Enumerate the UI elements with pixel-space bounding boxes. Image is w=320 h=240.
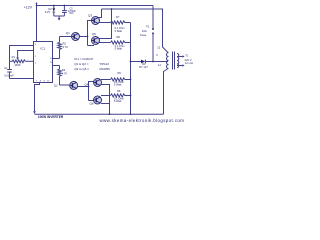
resistor R8 0.1 Ohm 5 Watt bbox=[111, 41, 131, 44]
wire Q5 emitter bbox=[98, 42, 111, 44]
svg-text:R6: R6 bbox=[117, 89, 121, 93]
svg-text:R8: R8 bbox=[117, 35, 121, 39]
svg-text:C1: C1 bbox=[4, 66, 8, 70]
wire Q4/Q6 collectors to bottom rail bbox=[101, 85, 110, 115]
wire +12V rail corner to fuse bbox=[152, 6, 154, 29]
transistor Q4 2N3055 bbox=[94, 79, 102, 87]
svg-text:2N3055: 2N3055 bbox=[99, 67, 110, 71]
wire Q5 collector riser bbox=[98, 9, 112, 39]
svg-text:12: 12 bbox=[157, 46, 160, 50]
svg-text:BY 127: BY 127 bbox=[139, 65, 148, 69]
svg-text:Q1 & Q2 =: Q1 & Q2 = bbox=[74, 62, 89, 66]
label R1 value bbox=[12, 55, 21, 67]
wire D1 cathode to transformer center tap bbox=[145, 61, 168, 63]
IC pin numbers bbox=[35, 44, 53, 82]
transistor Q2 TIP122 bbox=[70, 81, 78, 89]
label R2 value bbox=[63, 42, 69, 49]
svg-text:0,01 mF: 0,01 mF bbox=[4, 73, 14, 77]
wire IC ground drop with arrow bbox=[33, 83, 39, 115]
transformer T1 core bbox=[173, 52, 175, 70]
transistor Q3 2N3055 bbox=[92, 17, 100, 25]
svg-text:T1: T1 bbox=[185, 53, 189, 57]
wire secondary output top with arrow bbox=[177, 55, 185, 57]
resistor R2 4.7K bbox=[53, 37, 62, 59]
resistor R7 0.1 Ohm 5 Watt bbox=[111, 21, 131, 24]
wire pot loop top (pin stub) bbox=[10, 46, 34, 70]
svg-text:TIP122: TIP122 bbox=[99, 62, 109, 66]
wire pin 11 stub bbox=[53, 65, 60, 67]
wire Q1 output to Q3/Q5 bases bbox=[80, 21, 95, 46]
wire Q3 emitter bbox=[98, 22, 111, 24]
diode D1 BY127 bbox=[141, 60, 145, 64]
transformer T1 primary coil bbox=[167, 53, 169, 69]
capacitor C2 bbox=[62, 6, 67, 17]
resistor R5 0.1 Ohm 5 Watt bbox=[111, 78, 131, 81]
svg-text:F1: F1 bbox=[146, 24, 150, 28]
resistor R6 0.1 Ohm 5 Watt bbox=[111, 94, 131, 97]
svg-text:Q3 to Q6 =: Q3 to Q6 = bbox=[74, 67, 89, 71]
label C1 value bbox=[4, 66, 14, 78]
wire Q4 emitter bbox=[101, 79, 111, 81]
svg-text:4.7K: 4.7K bbox=[63, 45, 69, 49]
svg-text:5 Watt: 5 Watt bbox=[114, 99, 122, 103]
wire C1 bottom to IC bbox=[10, 78, 34, 80]
svg-text:Q2: Q2 bbox=[54, 84, 58, 88]
wire fuse to D1 line bbox=[152, 34, 154, 62]
wire IC supply drop bbox=[36, 6, 38, 42]
wire pot wiper bbox=[16, 51, 33, 61]
transistor Q5 2N3055 bbox=[92, 37, 100, 45]
wire D1 anode side bbox=[131, 61, 142, 63]
label F1 fuse bbox=[140, 24, 150, 37]
wire right emitter bus vertical bbox=[130, 23, 132, 115]
svg-text:R5: R5 bbox=[118, 71, 122, 75]
svg-text:5 Watt: 5 Watt bbox=[115, 29, 123, 33]
svg-text:100W INVERTER: 100W INVERTER bbox=[38, 115, 64, 119]
svg-text:Q4: Q4 bbox=[84, 82, 88, 86]
fuse F1 10A bbox=[152, 28, 154, 34]
svg-text:IC1 = CD4047: IC1 = CD4047 bbox=[74, 57, 93, 61]
label R7 value bbox=[115, 15, 125, 33]
transistor Q6 2N3055 bbox=[94, 96, 102, 104]
potentiometer R1 250K bbox=[10, 60, 34, 63]
label R8 value bbox=[115, 35, 125, 50]
label R5 value bbox=[114, 71, 124, 87]
capacitor C1 bbox=[7, 70, 12, 79]
zener diode D2 bbox=[52, 6, 64, 21]
wire bottom ground rail bbox=[35, 113, 164, 115]
svg-text:www.skema-elektronik.blogspot.: www.skema-elektronik.blogspot.com bbox=[100, 118, 185, 123]
wire Q3 collector riser bbox=[98, 9, 102, 18]
wire secondary output bottom with arrow bbox=[177, 64, 185, 66]
svg-text:R7: R7 bbox=[116, 15, 120, 19]
wire transformer bottom to ground rail bbox=[164, 69, 169, 115]
label T1 output bbox=[185, 53, 194, 65]
svg-text:4.7K: 4.7K bbox=[62, 72, 68, 76]
IC U1 CD4047 box bbox=[34, 42, 53, 83]
svg-text:12: 12 bbox=[158, 63, 161, 67]
resistor R3 4.7K bbox=[58, 66, 70, 86]
transformer T1 secondary coil bbox=[177, 54, 179, 68]
svg-text:Q6: Q6 bbox=[90, 101, 94, 105]
svg-text:5 Watt: 5 Watt bbox=[114, 83, 122, 87]
label D2 bbox=[45, 7, 52, 14]
svg-text:Q5: Q5 bbox=[92, 32, 96, 36]
parts list text bbox=[74, 57, 110, 71]
junction dots bbox=[53, 5, 55, 7]
svg-text:R1: R1 bbox=[12, 55, 16, 59]
wire top +12V rail bbox=[37, 5, 154, 7]
svg-text:6.2V: 6.2V bbox=[45, 10, 51, 14]
svg-text:5 Watt: 5 Watt bbox=[115, 47, 123, 51]
transistor Q1 TIP122 bbox=[72, 33, 80, 41]
label R6 value bbox=[114, 89, 124, 103]
svg-text:Q1: Q1 bbox=[66, 31, 70, 35]
wire Q6 emitter bbox=[101, 95, 111, 97]
svg-text:+12V: +12V bbox=[24, 5, 33, 9]
svg-text:IC1: IC1 bbox=[40, 46, 45, 50]
label C2 value bbox=[68, 8, 76, 15]
label D1 value bbox=[139, 62, 148, 69]
svg-text:Fuse: Fuse bbox=[140, 33, 147, 37]
svg-text:0: 0 bbox=[156, 53, 158, 57]
+12V supply arrow bbox=[35, 2, 37, 5]
svg-text:50V: 50V bbox=[69, 13, 74, 15]
svg-text:250K: 250K bbox=[15, 63, 21, 67]
svg-text:Q3: Q3 bbox=[88, 14, 92, 18]
label R3 value bbox=[62, 68, 68, 75]
wire collector bus B to transformer top bbox=[102, 9, 169, 53]
wire Q2 output to Q4/Q6 bases bbox=[78, 82, 94, 101]
svg-text:AC out: AC out bbox=[185, 61, 193, 65]
wire Q1 base bbox=[60, 36, 72, 38]
